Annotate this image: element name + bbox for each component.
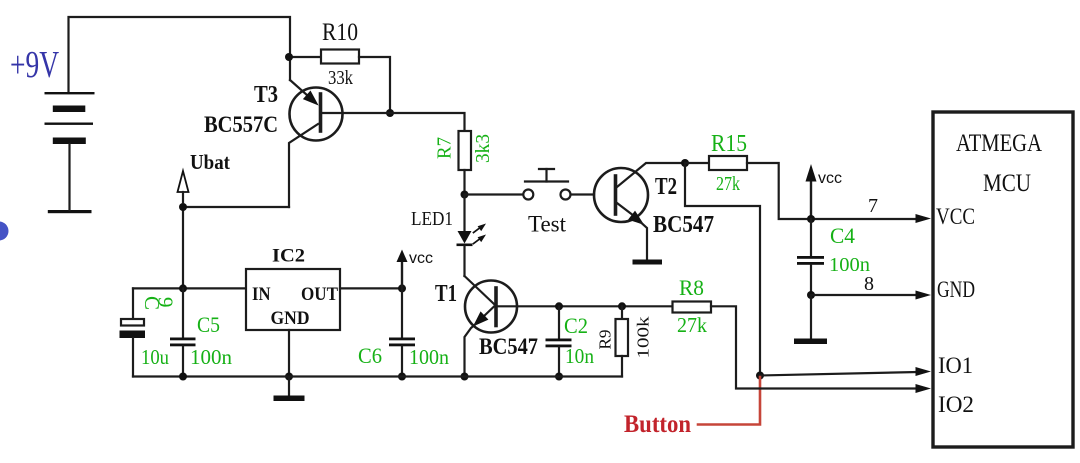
- resistor R8: [673, 302, 712, 313]
- svg-text:GND: GND: [271, 308, 310, 329]
- svg-text:BC557C: BC557C: [204, 112, 278, 137]
- vcc arrow left: [401, 261, 403, 288]
- svg-text:GND: GND: [937, 277, 975, 302]
- svg-text:BC547: BC547: [653, 212, 714, 238]
- wire GND stub: [288, 377, 290, 397]
- Ubat arrow open: [178, 171, 189, 192]
- node junction R9 top: [618, 302, 626, 310]
- wire GND rail to MCU: [811, 294, 917, 296]
- transistor T2 bar: [614, 176, 618, 214]
- transistor T3 emitter with arrow: [290, 80, 308, 96]
- wire LED top lead: [463, 195, 465, 232]
- transistor T3 collector diagonal: [289, 124, 318, 207]
- svg-text:Button: Button: [624, 411, 691, 438]
- node junction OUT rail: [398, 284, 406, 292]
- svg-text:8: 8: [864, 273, 874, 295]
- IC MCU box: [933, 112, 1073, 447]
- node junction base line: [386, 109, 394, 117]
- vcc arrow right: [810, 181, 812, 219]
- wire LED cathode down: [463, 246, 465, 276]
- node junction C2 top: [555, 302, 563, 310]
- svg-text:OUT: OUT: [301, 284, 338, 305]
- svg-text:100n: 100n: [409, 345, 449, 369]
- node junction C6 bottom: [398, 373, 406, 381]
- svg-text:9: 9: [154, 297, 178, 308]
- resistor R15: [709, 156, 747, 170]
- node junction C2 bottom: [555, 373, 563, 381]
- svg-text:C5: C5: [197, 312, 220, 337]
- svg-text:27k: 27k: [677, 313, 707, 337]
- transistor T2 emitter with arrow: [617, 203, 634, 216]
- svg-text:C6: C6: [358, 343, 382, 368]
- wire T1 collector rail: [496, 305, 673, 307]
- wire junction to Test button: [465, 193, 524, 195]
- wire Test to T2 base: [571, 193, 595, 195]
- wire R7 bottom lead: [463, 170, 465, 195]
- switch Test actuator: [525, 180, 568, 182]
- transistor T2 collector: [617, 163, 685, 187]
- svg-text:Ubat: Ubat: [190, 150, 230, 174]
- svg-text:100n: 100n: [190, 345, 233, 369]
- arrow into MCU GND: [916, 291, 932, 300]
- svg-text:IO2: IO2: [938, 392, 974, 417]
- svg-text:R9: R9: [596, 330, 615, 350]
- wire Ubat node: [183, 207, 289, 288]
- battery B1: [45, 92, 95, 213]
- svg-text:MCU: MCU: [983, 170, 1031, 197]
- node junction IN rail: [179, 284, 187, 292]
- node junction R7/LED/Test: [461, 191, 469, 199]
- svg-text:C4: C4: [830, 223, 855, 248]
- svg-text:Test: Test: [528, 212, 567, 237]
- wire OUT rail: [340, 287, 402, 289]
- wire IO1: [760, 372, 917, 376]
- wire R10 right lead down to base line: [359, 57, 390, 113]
- svg-text:vcc: vcc: [818, 170, 842, 187]
- node junction vcc rail: [807, 215, 815, 223]
- node junction T2 collector / R15: [681, 159, 689, 167]
- arrow into MCU IO2: [916, 384, 932, 393]
- node junction T1 emitter bottom: [461, 373, 469, 381]
- svg-text:33k: 33k: [328, 67, 353, 89]
- svg-text:T3: T3: [254, 82, 278, 108]
- transistor T1 bar: [494, 288, 498, 326]
- node junction R10 left: [285, 53, 293, 61]
- ground IC2: [274, 396, 305, 402]
- resistor R10: [321, 50, 359, 64]
- svg-text:IC2: IC2: [272, 246, 305, 267]
- ground T2: [633, 260, 663, 265]
- wire red button tap: [698, 377, 760, 425]
- wire R15 left lead: [685, 162, 709, 164]
- svg-text:VCC: VCC: [936, 204, 975, 229]
- IC IC2 box: [246, 269, 340, 330]
- wire net button: T2 collector to IO1: [685, 163, 760, 376]
- svg-text:R15: R15: [711, 131, 747, 157]
- wire IC2 GND lead: [288, 330, 290, 377]
- svg-text:IN: IN: [252, 284, 271, 305]
- wire top rail from battery plus to T3 emitter branch: [69, 17, 291, 93]
- wire R10 left lead: [289, 56, 321, 58]
- LED LED1: [458, 231, 472, 244]
- switch Test left contact: [523, 190, 533, 200]
- wire T3 base to R7 top: [322, 113, 465, 131]
- node junction GND rail: [807, 291, 815, 299]
- svg-text:+9V: +9V: [10, 44, 59, 86]
- switch Test right contact: [561, 190, 571, 200]
- node junction GND bottom: [285, 373, 293, 381]
- LED light arrows: [474, 226, 483, 243]
- svg-text:T2: T2: [655, 174, 677, 200]
- capacitor C2: [558, 306, 560, 338]
- node junction Ubat: [179, 203, 187, 211]
- blue blob left edge: [0, 222, 9, 241]
- svg-text:IO1: IO1: [938, 353, 973, 378]
- wire R8 right to IO2: [711, 306, 917, 388]
- svg-text:ATMEGA: ATMEGA: [956, 130, 1042, 157]
- svg-text:10n: 10n: [565, 344, 594, 368]
- wire bottom rail: [133, 375, 622, 377]
- capacitor C4: [810, 219, 812, 256]
- node junction button net: [756, 372, 764, 380]
- transistor T3 bar: [319, 94, 323, 131]
- capacitor C6: [401, 288, 403, 337]
- svg-text:C2: C2: [564, 313, 588, 338]
- wire IN rail: [133, 287, 246, 289]
- capacitor C5: [182, 288, 184, 337]
- transistor T1 circle: [465, 281, 517, 333]
- arrow into MCU IO1: [916, 367, 932, 376]
- svg-text:T1: T1: [435, 281, 457, 307]
- svg-text:10u: 10u: [141, 345, 169, 369]
- svg-text:LED1: LED1: [411, 208, 453, 230]
- capacitor C9 electrolytic: [132, 288, 134, 319]
- svg-text:7: 7: [868, 195, 878, 217]
- resistor R9: [621, 306, 623, 319]
- svg-text:100k: 100k: [634, 316, 653, 359]
- node junction C5 bottom: [179, 373, 187, 381]
- svg-text:BC547: BC547: [479, 334, 538, 359]
- transistor T2 circle: [594, 168, 648, 222]
- label C9 rotated glyphs: [140, 296, 178, 310]
- arrow into MCU VCC: [916, 214, 932, 223]
- transistor T1 base diagonal: [465, 276, 495, 304]
- resistor R7: [459, 131, 472, 170]
- svg-text:vcc: vcc: [409, 250, 433, 267]
- svg-text:R7: R7: [434, 137, 456, 159]
- wire R15 right to VCC rail: [747, 163, 917, 219]
- wire battery bottom lead: [68, 144, 70, 210]
- transistor T1 emitter with arrow: [483, 307, 494, 318]
- svg-text:27k: 27k: [716, 173, 740, 195]
- ground C4: [810, 295, 812, 339]
- svg-text:R10: R10: [322, 19, 358, 46]
- transistor T3 circle: [290, 88, 343, 141]
- svg-text:3k3: 3k3: [472, 134, 494, 163]
- svg-text:R8: R8: [679, 275, 704, 300]
